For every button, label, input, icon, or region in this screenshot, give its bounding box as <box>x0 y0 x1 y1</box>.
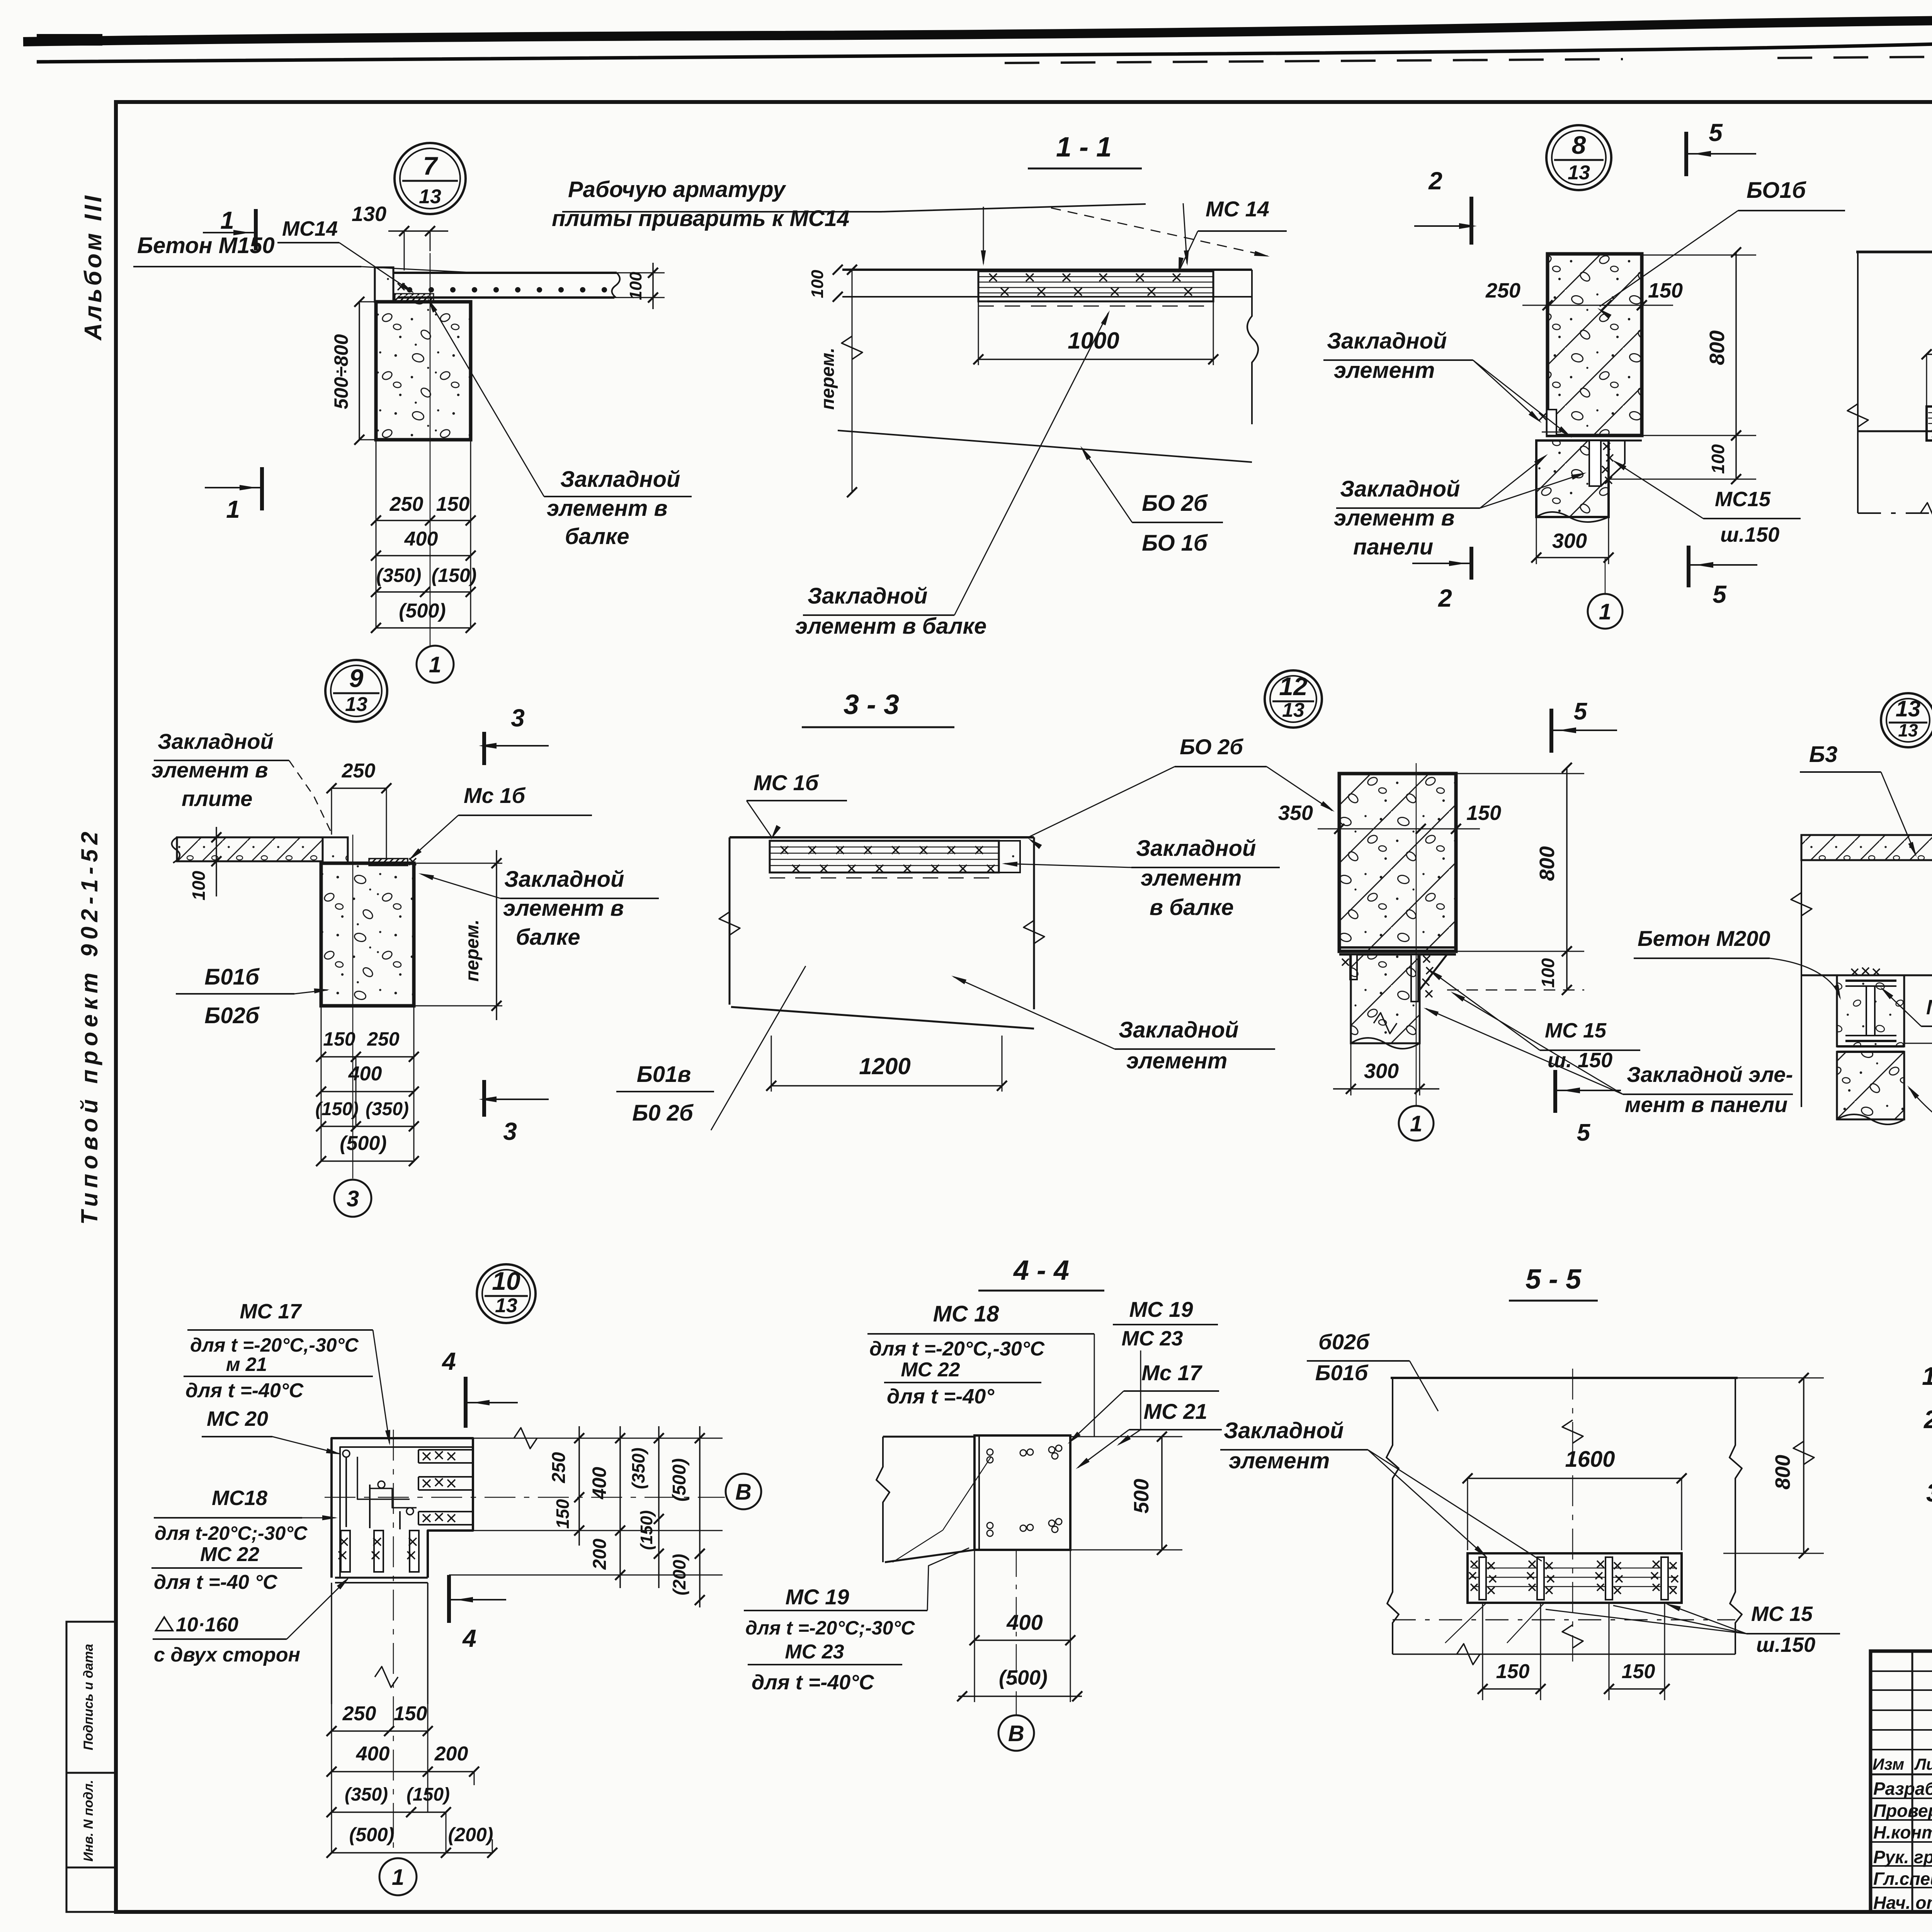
dim 500 s44 <box>1070 1432 1182 1555</box>
svg-text:2: 2 <box>1438 584 1452 612</box>
dim 500-800 node7 <box>330 297 381 445</box>
svg-text:Подпись и дата: Подпись и дата <box>81 1644 96 1750</box>
dim perem n9 <box>414 850 502 1020</box>
svg-text:1: 1 <box>392 1865 404 1890</box>
svg-text:Закладной: Закладной <box>1340 476 1460 502</box>
svg-text:350: 350 <box>1278 801 1313 825</box>
node circle 1 n7 <box>417 646 454 683</box>
slab lines s11 <box>842 270 1252 297</box>
svg-text:балке: балке <box>565 524 629 549</box>
svg-text:150: 150 <box>1648 279 1683 302</box>
svg-text:МС 1б: МС 1б <box>753 770 819 795</box>
svg-text:МС 13: МС 13 <box>1926 996 1932 1019</box>
dim 800 s55 <box>1723 1373 1824 1558</box>
svg-text:МС 18: МС 18 <box>933 1301 1000 1327</box>
plan axes n10 <box>325 1430 725 1855</box>
dim 1600 s55 <box>1463 1447 1687 1550</box>
svg-text:(500): (500) <box>340 1132 386 1155</box>
dim line2 n10 <box>588 1426 625 1588</box>
svg-text:100: 100 <box>1708 444 1728 474</box>
dim 100 s11 <box>808 265 843 302</box>
ext lines right n10 <box>449 1428 723 1575</box>
svg-text:для t =-20°C,-30°C: для t =-20°C,-30°C <box>869 1338 1045 1360</box>
svg-text:800: 800 <box>1771 1455 1794 1490</box>
svg-text:200: 200 <box>434 1743 468 1765</box>
dim 100 n8 <box>1609 430 1756 484</box>
label MC15 n12 <box>1428 969 1640 1072</box>
section mark 5 bot n12 <box>1555 1070 1621 1146</box>
svg-text:для t-20°C;-30°C: для t-20°C;-30°C <box>155 1522 308 1544</box>
svg-text:(150): (150) <box>637 1510 656 1550</box>
wall section n8 <box>1548 254 1642 435</box>
dim 100 node7 <box>614 263 665 309</box>
dim line3 n10 <box>628 1426 664 1588</box>
dim 100 n9 <box>189 827 221 900</box>
svg-text:для t =-20°C;-30°C: для t =-20°C;-30°C <box>745 1617 915 1639</box>
svg-text:элемент: элемент <box>1141 866 1242 891</box>
labels MC19 MC23 s44 <box>1113 1297 1218 1446</box>
svg-text:Б0 2б: Б0 2б <box>632 1100 694 1126</box>
dashed under plate s33 <box>770 878 999 879</box>
dim row 400 n7 <box>371 528 476 561</box>
svg-text:МС 15: МС 15 <box>1545 1019 1607 1042</box>
plan below wall lines n10 <box>332 1583 428 1704</box>
svg-text:(350): (350) <box>345 1784 388 1805</box>
svg-text:Закладной: Закладной <box>1224 1418 1344 1443</box>
label BO1b n8 <box>1597 178 1845 319</box>
svg-text:500: 500 <box>1130 1479 1153 1514</box>
svg-text:МС 23: МС 23 <box>785 1641 844 1663</box>
svg-text:Закладной: Закладной <box>504 867 624 892</box>
label weld n10 <box>153 1577 350 1666</box>
left margin text Типовой проект 902-1-52 <box>77 827 102 1225</box>
node 1 n10 <box>379 1858 417 1895</box>
svg-text:13: 13 <box>1568 162 1590 184</box>
svg-text:Нач. отд.: Нач. отд. <box>1873 1893 1932 1913</box>
svg-text:мент в панели: мент в панели <box>1625 1092 1787 1117</box>
beam section node7 <box>376 302 471 440</box>
joint n13 <box>1837 1046 1904 1052</box>
svg-text:200: 200 <box>590 1539 610 1570</box>
section mark 4 top n10 <box>441 1347 518 1428</box>
svg-text:150: 150 <box>1466 801 1501 825</box>
svg-text:МС 22: МС 22 <box>200 1543 259 1566</box>
label Mc16 n9 <box>408 783 592 861</box>
svg-text:4: 4 <box>462 1624 476 1652</box>
svg-text:13: 13 <box>1282 699 1304 721</box>
section mark 3 top n9 <box>479 704 549 765</box>
svg-text:5: 5 <box>1713 580 1727 608</box>
embed plate MC14 node7 <box>395 283 434 303</box>
svg-text:250: 250 <box>389 493 423 515</box>
svg-text:(200): (200) <box>448 1824 493 1845</box>
svg-text:100: 100 <box>808 270 827 298</box>
dim 300 n12 <box>1333 1002 1439 1095</box>
node 3 n9 <box>334 1180 371 1217</box>
svg-text:Рабочую арматуру: Рабочую арматуру <box>568 177 786 202</box>
svg-text:Лист: Лист <box>1914 1755 1932 1773</box>
svg-text:5 - 5: 5 - 5 <box>1526 1264 1582 1295</box>
dims 150 s55 <box>1478 1603 1670 1700</box>
I-beam block n13 <box>1837 968 1904 1046</box>
svg-text:Рук. гр.: Рук. гр. <box>1873 1847 1932 1867</box>
svg-text:Мс 17: Мс 17 <box>1141 1361 1202 1385</box>
title block <box>1871 1651 1932 1913</box>
svg-text:8: 8 <box>1572 131 1586 159</box>
svg-text:13: 13 <box>1898 720 1918 740</box>
svg-text:10: 10 <box>492 1267 520 1295</box>
embed plate MC15 n8 <box>1589 440 1625 486</box>
plate strip s11 <box>978 271 1213 301</box>
svg-text:для t =-40°C: для t =-40°C <box>185 1379 304 1402</box>
label MC13 n13 <box>1880 987 1932 1026</box>
upstand node7 <box>375 267 393 302</box>
right line s55 <box>1730 1378 1742 1654</box>
svg-text:для t =-40°: для t =-40° <box>887 1385 994 1408</box>
label Mc17 s44 <box>1068 1361 1219 1444</box>
dashed line under plate s11 <box>978 306 1213 307</box>
label rabochuyu armaturu <box>552 177 1270 266</box>
centerline s55 <box>1562 1369 1583 1662</box>
bottom lines s55 <box>1393 1620 1735 1665</box>
svg-text:3: 3 <box>511 704 525 732</box>
detail bubble 9/13 <box>325 660 387 722</box>
left margin table <box>66 1622 116 1912</box>
detail bubble 13/13 <box>1881 693 1932 747</box>
plan channel2 n10 <box>418 1477 473 1490</box>
plate strip s33 <box>770 841 1020 872</box>
svg-text:БО1б: БО1б <box>1747 178 1807 203</box>
svg-text:Провер.: Провер. <box>1873 1801 1932 1821</box>
svg-text:балке: балке <box>516 925 580 950</box>
section mark 2 bot n8 <box>1412 547 1471 612</box>
svg-text:300: 300 <box>1552 529 1587 553</box>
weld plate n9 <box>369 858 416 866</box>
left wall s44 <box>876 1437 975 1562</box>
svg-text:Закладной: Закладной <box>1119 1017 1238 1043</box>
section mark 2 top n8 <box>1414 167 1477 245</box>
svg-text:250: 250 <box>549 1452 569 1483</box>
label zakladnoy v paneli n8 <box>1334 454 1587 560</box>
embed plates n12 <box>1342 954 1433 1002</box>
svg-text:800: 800 <box>1536 846 1559 881</box>
svg-text:МС 19: МС 19 <box>786 1585 849 1609</box>
slab strip n9 <box>172 837 323 863</box>
svg-text:МС 19: МС 19 <box>1129 1297 1193 1321</box>
section mark 1 bottom <box>205 467 262 523</box>
detail bubble 8/13 <box>1546 125 1611 190</box>
svg-text:Инв. N подл.: Инв. N подл. <box>81 1780 96 1862</box>
section mark 1 top <box>203 206 256 250</box>
svg-text:100: 100 <box>626 272 645 300</box>
upstand n9 <box>323 837 348 863</box>
plan inner n10 <box>340 1447 473 1578</box>
panel below n13 <box>1837 1052 1904 1124</box>
section mark 5 top n12 <box>1551 698 1617 753</box>
right edge wavy s11 <box>1247 270 1258 424</box>
dim perem s11 <box>818 265 862 497</box>
panel strip s22 <box>1927 406 1932 440</box>
svg-text:МС 22: МС 22 <box>901 1359 960 1381</box>
svg-text:для t =-20°C,-30°C: для t =-20°C,-30°C <box>190 1334 359 1356</box>
label zakladnoy element v balke n7 <box>427 298 692 549</box>
dim 130 node7 <box>352 202 448 270</box>
left line n13 <box>1791 835 1812 1107</box>
labels MC17 n10 <box>184 1300 390 1446</box>
dim 350/150 n12 <box>1278 801 1501 834</box>
svg-text:БО 1б: БО 1б <box>1142 531 1208 556</box>
label zakl v balke s33 <box>1002 836 1280 920</box>
section mark 5 top n8 <box>1686 119 1756 176</box>
svg-text:ш.150: ш.150 <box>1720 523 1779 546</box>
svg-text:Бетон М200: Бетон М200 <box>1638 926 1770 951</box>
paper edge band top <box>23 15 1932 139</box>
svg-text:100: 100 <box>1538 958 1558 988</box>
dim 250 n9 <box>327 760 391 860</box>
heading 1-1 <box>1028 132 1142 168</box>
left line s22 <box>1847 252 1868 513</box>
label MC20 n10 <box>202 1407 342 1454</box>
svg-text:Бетон М150: Бетон М150 <box>137 233 275 258</box>
plan anchors bent n10 <box>343 1450 417 1529</box>
svg-text:элемент: элемент <box>1334 358 1435 383</box>
dim 1000 s11 <box>973 301 1218 365</box>
flange plates n12 <box>1339 947 1456 954</box>
dims below s44 <box>957 1550 1082 1702</box>
svg-text:Б01в: Б01в <box>637 1062 691 1087</box>
dim rows below n10 <box>327 1702 497 1858</box>
svg-text:МС14: МС14 <box>282 217 338 240</box>
svg-text:плите: плите <box>182 786 252 811</box>
svg-text:150: 150 <box>553 1499 573 1529</box>
svg-text:250: 250 <box>367 1028 400 1050</box>
label zakl v paneli shared <box>1423 992 1793 1117</box>
svg-text:(500): (500) <box>349 1824 395 1845</box>
dim 100 n12 <box>1447 946 1584 995</box>
dim line1 n10 <box>549 1426 584 1546</box>
svg-text:400: 400 <box>356 1743 390 1765</box>
slab n13 <box>1801 835 1932 860</box>
svg-text:800: 800 <box>1706 330 1729 365</box>
detail bubble 12/13 <box>1265 670 1322 728</box>
svg-text:2: 2 <box>1428 167 1442 195</box>
svg-text:элемент в: элемент в <box>151 758 268 782</box>
dim row 500 n7 <box>371 600 476 633</box>
svg-text:Закладной: Закладной <box>808 583 927 609</box>
svg-text:Б3: Б3 <box>1809 742 1837 767</box>
dim row 350/150 n7 <box>371 565 476 597</box>
svg-text:(350): (350) <box>366 1099 409 1119</box>
svg-text:400: 400 <box>1006 1610 1043 1634</box>
svg-text:(150): (150) <box>315 1099 359 1119</box>
svg-text:150: 150 <box>1496 1660 1530 1683</box>
label MC14 s11 <box>1179 197 1287 273</box>
svg-text:перем.: перем. <box>462 920 483 982</box>
svg-text:13: 13 <box>495 1294 517 1317</box>
leader diag s44 <box>893 1457 991 1562</box>
below-beam lines node7 <box>376 440 471 628</box>
svg-text:(500): (500) <box>999 1666 1048 1689</box>
plan joint n10 <box>335 1578 428 1583</box>
svg-text:Мс 1б: Мс 1б <box>464 783 526 808</box>
beam bottom slant s11 <box>838 430 1252 462</box>
svg-text:(500): (500) <box>669 1458 690 1502</box>
svg-text:1600: 1600 <box>1565 1447 1615 1472</box>
svg-text:10·160: 10·160 <box>176 1614 238 1636</box>
svg-text:1: 1 <box>226 495 240 523</box>
svg-text:13: 13 <box>345 693 367 716</box>
svg-text:5: 5 <box>1577 1119 1591 1146</box>
svg-text:130: 130 <box>352 202 386 226</box>
svg-text:элемент в: элемент в <box>503 896 624 921</box>
svg-text:Закладной: Закладной <box>1327 328 1447 354</box>
svg-text:Закладной эле-: Закладной эле- <box>1627 1062 1793 1087</box>
svg-text:перем.: перем. <box>818 348 838 410</box>
section mark 4 bot n10 <box>449 1575 506 1652</box>
svg-text:(350): (350) <box>376 565 422 586</box>
svg-text:400: 400 <box>588 1467 610 1500</box>
svg-text:4 - 4: 4 - 4 <box>1013 1255 1069 1286</box>
panel below n12 <box>1351 954 1447 1049</box>
svg-text:7: 7 <box>423 151 439 180</box>
plan channel3 n10 <box>418 1512 473 1525</box>
svg-text:МС 14: МС 14 <box>1206 197 1269 221</box>
plan channel1 n10 <box>418 1450 473 1463</box>
label zakl element s33 <box>951 976 1275 1073</box>
svg-text:1 - 1: 1 - 1 <box>1056 132 1112 163</box>
section mark 5 bot n8 <box>1689 546 1757 608</box>
svg-text:БО 2б: БО 2б <box>1142 491 1208 516</box>
label B01v B02b s33 <box>616 1062 714 1126</box>
label MC15 s55 <box>1546 1602 1840 1656</box>
svg-text:Б01б: Б01б <box>1315 1361 1369 1385</box>
svg-text:(150): (150) <box>432 565 477 586</box>
ref line s22 <box>1858 430 1932 432</box>
panel s55 <box>1468 1553 1682 1603</box>
svg-text:МС 23: МС 23 <box>1121 1327 1183 1350</box>
svg-text:5: 5 <box>1709 119 1723 146</box>
plan bars n10 <box>338 1531 419 1572</box>
svg-text:ш.150: ш.150 <box>1756 1633 1815 1656</box>
label zakl stenovoy shared <box>1907 1050 1932 1194</box>
svg-text:Н.контр.: Н.контр. <box>1873 1822 1932 1842</box>
svg-text:3. Высота монтажных швов - 10: 3. Высота монтажных швов - 10 мм. <box>1926 1478 1932 1507</box>
detail bubble 10/13 <box>477 1264 536 1323</box>
left line s55 <box>1386 1378 1399 1654</box>
beam axis node7 <box>430 253 431 646</box>
svg-text:300: 300 <box>1364 1060 1399 1083</box>
slab node7 <box>393 273 620 298</box>
svg-text:3: 3 <box>347 1186 359 1211</box>
svg-text:МС18: МС18 <box>212 1486 267 1510</box>
heading 3-3 <box>802 689 954 727</box>
svg-text:500÷800: 500÷800 <box>330 334 352 409</box>
svg-text:150: 150 <box>323 1028 355 1050</box>
svg-text:элемент в балке: элемент в балке <box>795 614 986 639</box>
label zakladnoy s11 <box>795 310 1110 639</box>
svg-text:В: В <box>1008 1721 1024 1746</box>
dim 300 n8 <box>1531 486 1614 564</box>
labels B02b B01b s55 <box>1307 1330 1438 1411</box>
labels MC19-23 bottom s44 <box>744 1548 969 1694</box>
svg-text:Разраб.: Разраб. <box>1873 1779 1932 1799</box>
label Beton M150 <box>133 233 477 273</box>
bolt holes s44 <box>987 1445 1062 1536</box>
dim 1600 s22 <box>1922 323 1932 406</box>
svg-text:МС 21: МС 21 <box>1144 1399 1207 1423</box>
wall section n12 <box>1339 774 1456 951</box>
label Beton M200 n12 <box>1634 926 1841 1000</box>
left margin text Альбом III <box>80 193 107 341</box>
top line s22 <box>1856 251 1932 253</box>
svg-text:400: 400 <box>404 528 438 550</box>
svg-text:элемент: элемент <box>1126 1048 1227 1073</box>
top line s55 <box>1391 1377 1738 1379</box>
axis node1 n12 <box>1399 763 1434 1141</box>
svg-text:Типовой проект 902-1-52: Типовой проект 902-1-52 <box>77 827 102 1225</box>
label B3 n13 <box>1800 742 1917 857</box>
svg-text:Гл.спец.: Гл.спец. <box>1873 1869 1932 1889</box>
plate s44 <box>975 1435 1070 1550</box>
svg-text:12: 12 <box>1279 672 1308 701</box>
svg-text:1: 1 <box>1599 599 1611 624</box>
label MC15 n8 <box>1612 460 1801 546</box>
svg-text:В: В <box>735 1480 752 1505</box>
svg-text:1: 1 <box>1410 1111 1422 1136</box>
svg-text:в балке: в балке <box>1150 895 1234 920</box>
label B01b B02b n9 <box>176 964 330 1028</box>
embed plate left n8 <box>1539 410 1561 435</box>
dim ladder n9 <box>315 1006 419 1166</box>
label BO2b BO1b s11 <box>1080 446 1223 556</box>
svg-text:4: 4 <box>441 1347 456 1375</box>
svg-text:1: 1 <box>220 206 234 234</box>
svg-text:панели: панели <box>1353 534 1433 560</box>
section mark 3 bot n9 <box>479 1080 549 1145</box>
labels MC18 n10 <box>151 1486 338 1594</box>
axis n9 <box>352 835 354 1179</box>
label BO2b shared <box>1028 735 1335 849</box>
dim 800 n12 <box>1456 763 1584 956</box>
svg-text:(350): (350) <box>628 1447 648 1489</box>
panel plates s55 <box>1469 1557 1678 1600</box>
svg-text:б02б: б02б <box>1318 1330 1370 1354</box>
mid line n13 <box>1801 975 1932 976</box>
label MC16 s33 <box>747 770 847 840</box>
svg-text:(500): (500) <box>399 600 446 622</box>
svg-text:Б01б: Б01б <box>204 964 260 990</box>
svg-text:250: 250 <box>342 1702 376 1725</box>
svg-text:2. Размеры в скобках даны для: 2. Размеры в скобках даны для районов с … <box>1923 1405 1932 1434</box>
label zakl v plite n9 <box>151 729 332 833</box>
svg-text:13: 13 <box>419 185 441 208</box>
label MC21 s44 <box>1076 1399 1222 1469</box>
svg-text:плиты приварить к МС14: плиты приварить к МС14 <box>552 206 849 231</box>
joint plates n8 <box>1548 435 1642 440</box>
label zakl element s55 <box>1220 1418 1542 1561</box>
label zakl v balke n9 <box>418 867 659 950</box>
beam section n9 <box>321 863 414 1006</box>
svg-text:элемент: элемент <box>1229 1448 1330 1473</box>
svg-text:250: 250 <box>342 760 376 782</box>
svg-text:1: 1 <box>429 652 441 677</box>
svg-text:м 21: м 21 <box>226 1354 267 1375</box>
svg-text:3: 3 <box>503 1117 517 1145</box>
svg-text:5: 5 <box>1574 698 1588 725</box>
svg-text:100: 100 <box>189 871 209 900</box>
node B right n10 <box>726 1474 761 1509</box>
edges s33 <box>719 837 1044 1029</box>
